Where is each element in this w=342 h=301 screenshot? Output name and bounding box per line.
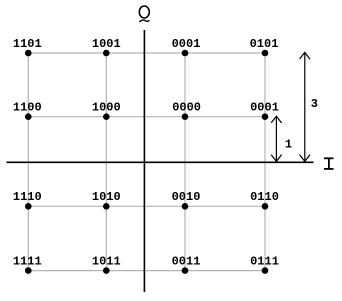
node 0001 <box>172 37 201 56</box>
svg-text:1010: 1010 <box>92 190 121 204</box>
wire grid row 1 <box>28 52 265 54</box>
node 0111 <box>250 255 279 274</box>
wire grid row 2 <box>28 116 265 118</box>
Q axis label <box>139 6 149 22</box>
svg-text:0000: 0000 <box>172 101 201 115</box>
I axis <box>7 161 314 163</box>
svg-text:3: 3 <box>311 97 318 111</box>
svg-text:1110: 1110 <box>13 190 42 204</box>
dimension line 3 <box>300 52 318 161</box>
node 0101 <box>250 37 279 56</box>
svg-text:1000: 1000 <box>92 101 121 115</box>
I axis label <box>324 158 334 169</box>
svg-text:0001: 0001 <box>250 101 279 115</box>
dimension line 1 <box>271 116 292 161</box>
svg-text:0010: 0010 <box>172 190 201 204</box>
wire grid col 4 <box>264 53 266 271</box>
node 1010 <box>92 190 121 209</box>
node 1110 <box>13 190 42 209</box>
svg-text:0011: 0011 <box>172 255 201 269</box>
svg-text:0001: 0001 <box>172 37 201 51</box>
svg-text:1011: 1011 <box>92 255 121 269</box>
node 1111 <box>13 255 42 274</box>
node 1000 <box>92 101 121 120</box>
node 0001b <box>250 101 279 120</box>
node 1001 <box>92 37 121 56</box>
wire grid col 1 <box>27 53 29 271</box>
svg-text:1: 1 <box>285 137 292 151</box>
wire grid row 3 <box>28 205 265 207</box>
svg-text:0110: 0110 <box>250 190 279 204</box>
svg-text:1001: 1001 <box>92 37 121 51</box>
node 1101 <box>13 37 42 56</box>
svg-text:1100: 1100 <box>13 101 42 115</box>
wire grid row 4 <box>28 270 265 272</box>
node 1100 <box>13 101 42 120</box>
node 1011 <box>92 255 121 274</box>
node 0011 <box>172 255 201 274</box>
svg-text:1101: 1101 <box>13 37 42 51</box>
svg-text:1111: 1111 <box>13 255 42 269</box>
Q axis <box>143 30 145 292</box>
node 0010 <box>172 190 201 209</box>
node 0110 <box>250 190 279 209</box>
svg-text:0111: 0111 <box>250 255 279 269</box>
wire grid col 3 <box>184 53 186 271</box>
svg-text:0101: 0101 <box>250 37 279 51</box>
node 0000 <box>172 101 201 120</box>
wire grid col 2 <box>105 53 107 271</box>
